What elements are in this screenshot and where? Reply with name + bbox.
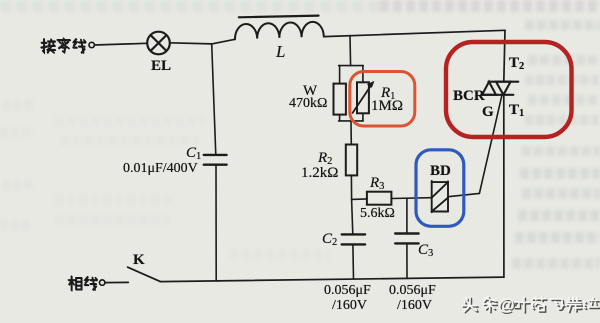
inductor core bar: [239, 16, 319, 18]
resistor W: [334, 84, 346, 115]
node A wire down to C1: [212, 44, 216, 155]
label 1MΩ: [371, 98, 403, 115]
label T1: [509, 102, 524, 119]
label T2: [509, 55, 524, 72]
wire: [350, 175, 352, 199]
label C2: [322, 231, 337, 248]
capacitor C3: [395, 234, 418, 244]
wire: [105, 281, 128, 283]
wire: [170, 43, 212, 44]
orange highlight box (R1): [350, 72, 415, 127]
wire: [362, 113, 364, 121]
label C1: [186, 145, 201, 162]
label 相线 (live wire): [68, 276, 96, 290]
wire: [212, 39, 235, 44]
triac BCR: [482, 82, 518, 95]
resistor R2: [346, 145, 357, 176]
capacitor C1: [204, 155, 227, 165]
wire BD output: [448, 193, 479, 196]
label L: [276, 42, 285, 62]
label 470kΩ: [289, 96, 327, 112]
label R3: [370, 175, 384, 192]
red highlight box (triac): [446, 42, 572, 137]
wire: [339, 66, 341, 84]
label EL: [151, 58, 171, 75]
wire: [391, 197, 431, 200]
watermark @ sign: [498, 295, 515, 315]
label K: [133, 252, 145, 269]
label W: [303, 83, 317, 100]
switch K blade: [128, 267, 161, 281]
wire split bar top: [339, 65, 364, 67]
label C3: [418, 242, 433, 259]
label BD: [430, 163, 451, 180]
label 1.2kΩ: [301, 165, 338, 182]
wire C2 branch: [352, 199, 353, 234]
label G: [482, 104, 494, 121]
terminal (live input): [100, 280, 105, 285]
wire: [406, 243, 408, 278]
wire: [339, 115, 341, 121]
R1 arrow: [353, 81, 375, 113]
wire: [352, 244, 355, 279]
blue highlight box (BD): [416, 150, 464, 227]
wire T2 lead: [504, 30, 505, 81]
label 0.01uF/400V: [123, 161, 198, 177]
diac BD: [432, 181, 448, 212]
label 5.6kΩ: [360, 206, 395, 222]
wire: [362, 66, 364, 83]
inductor L: [235, 22, 324, 39]
label R2: [318, 150, 332, 167]
wire node C to R3: [352, 198, 367, 201]
paper background texture: faint bleed-through print rows: [0, 1, 380, 12]
node B wire down to W/R1: [349, 36, 352, 66]
wire gate G: [479, 95, 502, 194]
resistor R1: [357, 82, 369, 113]
terminal (neutral input): [89, 42, 94, 47]
wire: [350, 121, 352, 145]
wire T1 lead: [503, 95, 505, 277]
lamp EL: [147, 32, 170, 55]
capacitor C2: [342, 234, 365, 244]
resistor R3: [367, 192, 392, 205]
label 接零线 (neutral wire): [41, 38, 85, 52]
wire: [95, 43, 148, 45]
label BCR: [453, 88, 485, 105]
label 0.056uF/160V (C2): [324, 283, 371, 299]
label R1: [381, 85, 395, 102]
label 0.056uF/160V (C3): [389, 283, 436, 299]
wire split bar bottom: [339, 120, 364, 122]
watermark 头条@叶落飞舞泣: [462, 297, 599, 313]
bottom rail wire: [160, 277, 504, 282]
wire: [324, 30, 505, 36]
wire C3 branch: [406, 199, 408, 234]
wire: [215, 165, 217, 281]
